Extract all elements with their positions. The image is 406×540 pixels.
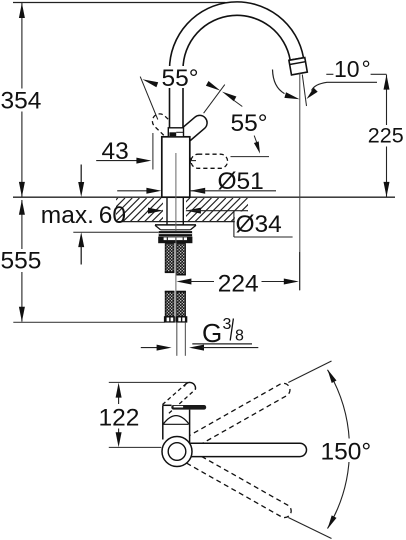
svg-text:8: 8 — [235, 328, 244, 345]
svg-text:122: 122 — [99, 404, 140, 431]
svg-text:555: 555 — [1, 248, 42, 275]
svg-text:3: 3 — [223, 316, 232, 333]
svg-text:55°: 55° — [231, 110, 268, 137]
svg-text:max. 60: max. 60 — [41, 202, 126, 229]
svg-text:150°: 150° — [321, 438, 372, 465]
svg-text:55°: 55° — [162, 65, 199, 92]
svg-text:225: 225 — [368, 124, 404, 148]
svg-text:354: 354 — [1, 88, 42, 115]
svg-text:10 °: 10 ° — [334, 56, 371, 82]
svg-text:224: 224 — [218, 270, 259, 297]
svg-text:Ø34: Ø34 — [236, 211, 282, 238]
